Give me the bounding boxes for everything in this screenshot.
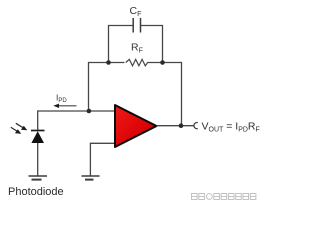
light arrow 1 xyxy=(16,123,27,130)
svg-text:RF: RF xyxy=(131,42,143,55)
ground op-amp input xyxy=(82,176,100,180)
wire CF right vertical xyxy=(162,25,164,63)
wire RF right segment xyxy=(147,62,181,64)
wire CF left vertical xyxy=(108,25,110,63)
wire non-inverting input xyxy=(90,143,115,176)
wire left feedback vertical xyxy=(88,62,90,111)
node inverting input junction xyxy=(87,109,92,114)
wire output xyxy=(157,125,194,127)
resistor RF xyxy=(126,59,148,66)
wire inverting input xyxy=(38,110,116,112)
node right feedback junction xyxy=(160,60,165,65)
node left feedback junction xyxy=(106,60,111,65)
svg-text:CF: CF xyxy=(130,5,142,18)
svg-text:VOUT = IPDRF: VOUT = IPDRF xyxy=(202,121,260,134)
ground photodiode xyxy=(29,176,48,180)
wire CF top-left horizontal segment xyxy=(109,25,134,27)
wire photodiode anode vertical xyxy=(37,143,39,176)
photodiode D1 xyxy=(31,131,45,144)
watermark 头条号@电子工程世界 xyxy=(192,194,256,200)
wire right feedback vertical xyxy=(181,62,183,126)
wire RF left segment xyxy=(89,62,125,64)
wire photodiode cathode vertical xyxy=(37,110,39,130)
svg-text:IPD: IPD xyxy=(56,93,67,105)
node output junction xyxy=(179,123,184,128)
arrow IPD current xyxy=(53,104,76,108)
terminal VOUT open circle xyxy=(194,123,198,129)
light arrow 2 xyxy=(11,127,21,134)
svg-text:Photodiode: Photodiode xyxy=(8,186,64,198)
wire CF top-right horizontal segment xyxy=(141,25,163,27)
op-amp U1 xyxy=(115,105,157,147)
capacitor CF xyxy=(133,18,140,33)
